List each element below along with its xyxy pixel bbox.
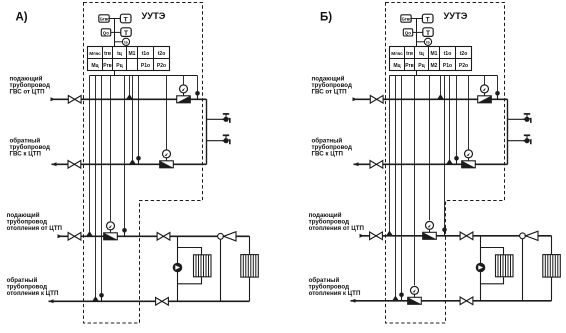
water tap 2	[524, 140, 530, 142]
thermometer box T (upper)	[422, 14, 433, 23]
radiator 1 (heating appliance)	[496, 255, 514, 277]
wire to heating-supply temp sensor	[89, 76, 91, 237]
water draw-off branch 2	[207, 140, 224, 142]
flow arrow at heating return outlet	[49, 299, 54, 303]
svg-text:tгв: tгв	[406, 51, 413, 57]
svg-text:М2: М2	[431, 63, 438, 69]
water draw-off branch 1	[207, 118, 224, 120]
dashed boundary of УУТЭ unit	[386, 3, 505, 324]
circulation riser connecting GVS supply to return	[206, 99, 208, 164]
GVS supply pipe (подающий трубопровод ГВС)	[51, 98, 207, 100]
svg-text:Мц: Мц	[393, 63, 401, 69]
temp sensor on GVS return	[129, 159, 136, 164]
svg-text:УУТЭ: УУТЭ	[444, 11, 468, 21]
pump branch riser	[480, 236, 482, 301]
pressure tap on heating return	[101, 297, 103, 301]
water tap 2	[223, 140, 229, 142]
wire to heating-supply pressure tap	[124, 76, 126, 231]
svg-text:М1: М1	[431, 51, 438, 57]
svg-text:t1о: t1о	[444, 51, 452, 57]
heating supply pipe (подающий трубопровод отопления)	[360, 235, 552, 237]
GVS return pipe (обратный трубопровод ГВС)	[354, 163, 508, 165]
wire to GVS-return pressure tap	[456, 76, 458, 159]
wire to GVS-supply temp sensor	[440, 76, 442, 100]
wire to GVS-supply flowmeter gauge	[484, 76, 486, 85]
svg-text:Р2о: Р2о	[157, 63, 166, 69]
flowmeter on heating supply (M1)	[423, 232, 437, 239]
temp sensor on GVS supply	[437, 94, 444, 99]
flowmeter on heating supply (M1)	[104, 233, 118, 240]
svg-text:ГВС к ЦТП: ГВС к ЦТП	[10, 151, 42, 158]
dashed boundary of УУТЭ unit	[84, 3, 203, 324]
flowmeter on GVS return (Mц)	[160, 161, 174, 168]
svg-text:Рц: Рц	[418, 63, 425, 69]
heating return pipe (обратный трубопровод отопления)	[49, 300, 250, 302]
wire to heating-return temp sensor	[395, 76, 397, 301]
flowmeter on GVS return (Mц)	[462, 161, 476, 168]
elevator (water-jet pump)	[218, 233, 224, 239]
wire to heating-return pressure tap	[101, 76, 103, 296]
svg-text:Р2о: Р2о	[459, 63, 468, 69]
gauge on heating return flowmeter	[414, 294, 416, 297]
shut-off valve on GVS return	[68, 161, 81, 169]
wire to GVS-return flowmeter gauge	[468, 76, 470, 150]
GVS return pipe (обратный трубопровод ГВС)	[52, 163, 207, 165]
shut-off valve on GVS supply	[68, 96, 81, 104]
wire to GVS-return pressure tap	[138, 76, 140, 159]
svg-text:Б): Б)	[320, 12, 332, 24]
circulation pump	[173, 263, 183, 273]
flow arrow at GVS return outlet	[354, 162, 359, 166]
svg-text:Мц: Мц	[91, 63, 99, 69]
radiator 1 (heating appliance)	[194, 255, 212, 277]
flowmeter on GVS supply (Mгвс)	[177, 96, 191, 103]
radiator 2 (heating appliance)	[241, 255, 258, 278]
wire to heating-supply temp sensor	[389, 76, 391, 236]
heating supply pipe (подающий трубопровод отопления)	[58, 235, 250, 237]
flow arrow at heating supply inlet	[360, 234, 365, 238]
sensor circle tв	[122, 38, 129, 45]
sensor cable collector line	[390, 75, 498, 77]
water draw-off branch 2	[508, 140, 525, 142]
wire to GVS-return flowmeter gauge	[166, 76, 168, 150]
wire to GVS-return temp sensor	[132, 76, 134, 165]
wire to heating-return pressure tap	[401, 76, 403, 295]
svg-text:Ргв: Ргв	[405, 63, 414, 69]
temp sensor on heating supply	[86, 231, 93, 236]
svg-text:t1о: t1о	[142, 51, 150, 57]
elevator (water-jet pump)	[520, 233, 526, 239]
water tap 1	[524, 118, 530, 120]
gauge on GVS supply flowmeter	[484, 93, 486, 96]
device box Gгвс	[99, 15, 109, 22]
wire to GVS-supply temp sensor	[129, 76, 131, 100]
sensor circle tв	[424, 38, 431, 45]
svg-text:Т: Т	[124, 16, 128, 23]
svg-text:Qо: Qо	[103, 30, 109, 35]
svg-text:tгв: tгв	[104, 51, 111, 57]
shut-off valve on heating return	[156, 298, 169, 306]
flow arrow at GVS return outlet	[52, 162, 57, 166]
temp sensor on GVS supply	[126, 94, 133, 99]
wire to heating-return flowmeter gauge M2	[414, 76, 416, 286]
temp sensor on heating return	[392, 296, 399, 301]
svg-text:Qо: Qо	[405, 30, 411, 35]
gauge on GVS return flowmeter	[468, 158, 470, 161]
terminal table frame	[390, 47, 472, 71]
wire to GVS-return temp sensor	[449, 76, 451, 165]
heating return pipe (обратный трубопровод отопления)	[351, 300, 552, 302]
pressure tap on GVS supply	[497, 95, 499, 99]
wire to heating-supply flowmeter gauge M1	[429, 76, 431, 221]
shut-off valve on heating return	[460, 297, 473, 305]
gauge on GVS return flowmeter	[166, 158, 168, 161]
svg-text:УУТЭ: УУТЭ	[142, 11, 166, 21]
svg-text:Gгвс: Gгвс	[402, 17, 412, 22]
svg-text:отопления от ЦТП: отопления от ЦТП	[309, 225, 365, 232]
svg-text:Т: Т	[426, 16, 430, 23]
drop pipe through radiator 2	[249, 236, 251, 301]
device box Qo	[101, 29, 110, 36]
elevator suction line	[522, 239, 524, 301]
vertical bus wire from devices through table to collector	[416, 19, 418, 76]
wire to GVS-supply pressure tap	[197, 76, 199, 94]
gauge on heating supply flowmeter	[110, 230, 112, 233]
drop pipe through radiator 2	[551, 236, 553, 301]
svg-text:Р1о: Р1о	[141, 63, 150, 69]
flow arrow at heating return outlet	[351, 299, 356, 303]
shut-off valve on GVS return	[370, 161, 383, 169]
pressure tap on GVS return	[138, 160, 140, 164]
svg-text:Ргв: Ргв	[103, 63, 112, 69]
flow arrow at GVS supply inlet	[51, 97, 56, 101]
svg-text:Т: Т	[426, 30, 430, 37]
shut-off valve 2 on heating supply	[460, 232, 473, 240]
circulation riser connecting GVS supply to return	[507, 99, 509, 164]
svg-text:А): А)	[16, 12, 28, 24]
vertical bus wire from devices through table to collector	[114, 19, 116, 76]
device box Qo	[403, 29, 412, 36]
pressure tap on GVS supply	[197, 95, 199, 99]
wire to heating-supply flowmeter gauge	[110, 76, 112, 222]
svg-text:ГВС от ЦТП: ГВС от ЦТП	[312, 89, 348, 96]
flow arrow at GVS supply inlet	[353, 97, 358, 101]
svg-text:Рц: Рц	[116, 63, 123, 69]
svg-text:t2о: t2о	[158, 51, 166, 57]
bypass loop to radiator 1	[481, 248, 504, 256]
svg-text:отопления к ЦТП: отопления к ЦТП	[309, 290, 361, 297]
shut-off valve on GVS supply	[370, 96, 383, 104]
svg-text:t2о: t2о	[460, 51, 468, 57]
water tap 1	[223, 118, 229, 120]
thermometer box T (upper)	[120, 14, 131, 23]
flowmeter on heating return (M2)	[408, 297, 422, 304]
device interconnect wires	[109, 18, 120, 20]
temp sensor on heating return	[92, 296, 99, 301]
svg-text:ГВС к ЦТП: ГВС к ЦТП	[312, 151, 344, 158]
svg-text:Р1о: Р1о	[443, 63, 452, 69]
gauge on heating supply flowmeter	[429, 229, 431, 232]
svg-text:Мгвс: Мгвс	[391, 51, 403, 57]
temp sensor on GVS return	[446, 159, 453, 164]
pump branch riser	[177, 236, 179, 301]
shut-off valve 2 on heating supply	[157, 233, 170, 241]
svg-text:отопления к ЦТП: отопления к ЦТП	[7, 290, 59, 297]
temp sensor on heating supply	[386, 231, 393, 236]
pressure tap on GVS return	[456, 160, 458, 164]
thermometer box T (lower)	[423, 28, 433, 37]
wire to heating-supply pressure tap	[444, 76, 446, 230]
svg-text:Мгвс: Мгвс	[89, 51, 101, 57]
radiator 2 (heating appliance)	[543, 255, 561, 278]
elevator suction line	[220, 239, 222, 301]
GVS supply pipe (подающий трубопровод ГВС)	[353, 98, 508, 100]
circulation pump	[476, 263, 486, 273]
shut-off valve 1 on heating supply	[370, 232, 383, 240]
pressure tap on heating supply	[444, 232, 446, 236]
device interconnect wires	[411, 18, 422, 20]
svg-text:Gгвс: Gгвс	[100, 17, 110, 22]
terminal table frame	[88, 47, 170, 71]
wire to GVS-supply flowmeter gauge	[183, 76, 185, 85]
device box Gгвс	[401, 15, 411, 22]
svg-text:Т: Т	[124, 30, 128, 37]
thermometer box T (lower)	[121, 28, 131, 37]
sensor cable collector line	[90, 75, 198, 77]
flow arrow at heating supply inlet	[58, 234, 63, 238]
wire to GVS-supply pressure tap	[497, 76, 499, 94]
pressure tap on heating return	[401, 297, 403, 301]
flowmeter on GVS supply (Mгвс)	[478, 96, 492, 103]
shut-off valve 1 on heating supply	[68, 233, 81, 241]
bypass loop to radiator 1	[178, 248, 202, 256]
gauge on GVS supply flowmeter	[183, 93, 185, 96]
svg-text:отопления от ЦТП: отопления от ЦТП	[7, 225, 63, 232]
water draw-off branch 1	[508, 118, 525, 120]
svg-text:М1: М1	[129, 51, 136, 57]
pressure tap on heating supply	[124, 232, 126, 236]
wire to heating-return temp sensor	[95, 76, 97, 302]
svg-text:ГВС от ЦТП: ГВС от ЦТП	[10, 89, 46, 96]
